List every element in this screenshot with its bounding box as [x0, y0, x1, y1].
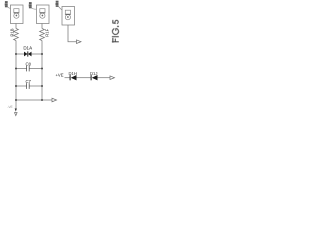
figure title FIG. 5 [112, 20, 118, 42]
svg-text:+VE: +VE [55, 73, 63, 78]
lamp block 18a [11, 5, 24, 24]
label 18c [56, 1, 63, 10]
wire block 18c down [68, 25, 77, 42]
node right rail / C7 [41, 85, 43, 87]
connector arrow down (left rail end) [15, 108, 17, 111]
wire left rail [15, 41, 17, 109]
node left rail / D1A [15, 53, 17, 55]
resistor R1F [40, 29, 45, 41]
svg-text:C7: C7 [25, 79, 31, 84]
wire block 18a to resistor R1B [15, 24, 17, 29]
diode D1J [91, 75, 98, 80]
wire C7 [16, 85, 27, 87]
node right rail / D1A [41, 53, 43, 55]
node left rail / C8 [15, 68, 17, 70]
svg-text:C8: C8 [25, 62, 31, 67]
node left rail / C7 [15, 85, 17, 87]
wire +VE line [65, 77, 70, 79]
connector arrow out (bottom) [52, 98, 57, 102]
node right rail / bottom [41, 99, 43, 101]
wire right rail [41, 41, 43, 101]
label 18b [29, 2, 37, 9]
capacitor C8 [27, 66, 30, 72]
connector arrow out (right) [110, 76, 115, 80]
lamp block 18c [62, 7, 75, 26]
resistor R1B [14, 29, 19, 41]
wire D1A bus [16, 53, 24, 55]
wire block 18b to resistor R1F [41, 24, 43, 29]
svg-text:D1A: D1A [23, 45, 32, 50]
svg-text:-VE: -VE [7, 105, 12, 109]
lamp block 18b [37, 5, 50, 24]
wire bottom [16, 99, 52, 101]
node right rail / C8 [41, 68, 43, 70]
diode D1H [70, 75, 77, 80]
wire C8 [16, 68, 27, 70]
label 18a [5, 1, 11, 8]
diode D1A (bidirectional) [24, 51, 32, 56]
connector arrow out (top right) [77, 40, 82, 44]
node left rail / bottom [15, 99, 17, 101]
svg-text:D1J: D1J [90, 71, 97, 76]
svg-text:R1B: R1B [9, 28, 14, 36]
svg-text:R1F: R1F [44, 28, 49, 36]
svg-text:D1H: D1H [69, 71, 77, 76]
capacitor C7 [27, 83, 30, 89]
